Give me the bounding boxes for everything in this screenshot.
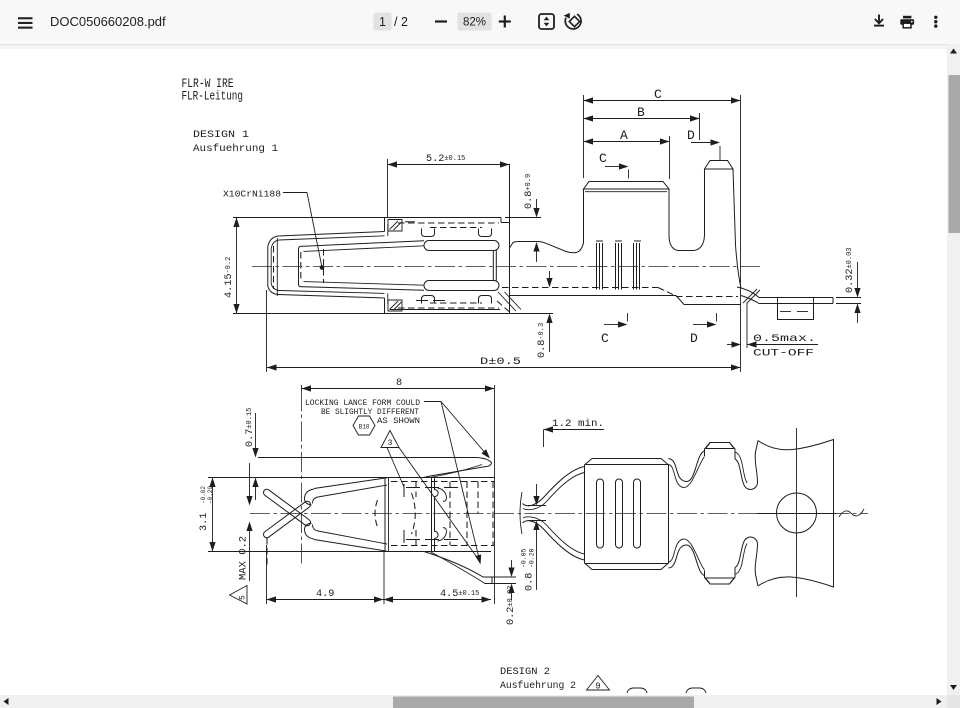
dimension 0.8+0.9 vertical — [536, 199, 538, 213]
svg-text:DESIGN 1: DESIGN 1 — [193, 129, 249, 141]
fit-to-page icon — [539, 14, 554, 29]
side view: S-curve to insulation wing lower — [669, 545, 705, 576]
bottom view: box top line — [208, 477, 494, 479]
minus icon — [435, 20, 447, 22]
top view: tongue jaws — [304, 241, 425, 246]
top view: box bottom fold double line — [278, 295, 385, 299]
dimension 0.8 funnel vertical — [528, 505, 546, 507]
top view: serration lines group 2 — [615, 243, 617, 290]
side view: insulation wing upper — [705, 443, 736, 460]
top view: left rounded cap — [268, 236, 278, 295]
svg-text:/ 2: / 2 — [394, 15, 408, 29]
vertical scrollbar — [947, 44, 960, 695]
top view: insulation wing pillar — [705, 161, 734, 170]
dimension C horizontal — [584, 100, 741, 102]
kebab menu icon — [934, 16, 937, 28]
svg-text:5: 5 — [239, 595, 248, 600]
svg-text:FLR-Leitung: FLR-Leitung — [182, 89, 244, 104]
top view: box top fold double line — [278, 232, 385, 237]
top view: hidden bottom line — [502, 287, 658, 289]
svg-text:X10CrNi188: X10CrNi188 — [223, 189, 281, 200]
top view: spring exit diagonals — [498, 292, 516, 311]
svg-text:D: D — [690, 331, 698, 346]
top view: outer top line — [233, 217, 501, 219]
hamburger menu icon — [18, 17, 33, 29]
dimension B horizontal — [584, 118, 700, 120]
print icon — [900, 16, 914, 28]
dimension 3.1 vertical — [212, 478, 214, 552]
svg-text:9: 9 — [595, 682, 600, 692]
symbol hexagon B18 — [353, 416, 375, 435]
side view: carrier hole circle — [777, 493, 817, 533]
svg-text:D±0.5: D±0.5 — [480, 357, 521, 368]
bottom view: upper arm — [304, 489, 314, 505]
svg-text:-0.20: -0.20 — [207, 486, 214, 504]
svg-text:-0.20: -0.20 — [529, 548, 536, 568]
top view: spring clip U top — [422, 229, 435, 237]
top view: hidden line bottom — [398, 307, 499, 309]
bottom view: rear wall — [384, 478, 386, 552]
side view: wire barrel outline — [585, 459, 669, 570]
svg-text:82%: 82% — [463, 17, 486, 29]
top view: centre line — [252, 266, 762, 268]
svg-text:BE SLIGHTLY DIFFERENT: BE SLIGHTLY DIFFERENT — [321, 408, 419, 417]
symbol triangle 9 — [587, 676, 610, 691]
side view: S-curve to insulation wing upper — [669, 451, 705, 482]
svg-text:8: 8 — [396, 378, 402, 389]
bottom view: hidden contact circle arc — [412, 493, 416, 534]
svg-text:C: C — [599, 151, 607, 166]
side view: serration slot 3 — [634, 479, 641, 548]
dimension 0.32±0.03 vertical — [857, 262, 859, 292]
side view: wire funnel upper — [523, 467, 585, 506]
bottom view: contact tip blade 2 — [262, 500, 312, 539]
dimension 4.9 — [267, 599, 384, 601]
dimension 4.5±0.15 — [384, 599, 492, 601]
svg-text:Ausfuehrung 2: Ausfuehrung 2 — [500, 680, 576, 692]
svg-text:DESIGN 2: DESIGN 2 — [500, 666, 550, 678]
side view: notch after wing lower — [735, 537, 758, 586]
side view: wire funnel lower — [523, 521, 585, 560]
top view: carrier strip — [759, 297, 833, 299]
top view: contact tongue front face — [299, 246, 304, 287]
top view: seam hatch bottom — [388, 300, 402, 311]
bottom view: datum dash-dot vertical — [301, 385, 303, 391]
svg-text:AS SHOWN: AS SHOWN — [377, 417, 420, 426]
top view: serration lines group 1 — [596, 243, 598, 290]
top view: bottom edge crimp floor — [510, 295, 677, 297]
bottom view: leader lines — [424, 401, 441, 403]
dimension gap 0.2 arrows — [249, 463, 251, 501]
top view: bottom outer line — [233, 313, 553, 315]
svg-text:MAX 0.2: MAX 0.2 — [238, 536, 250, 580]
dimension 5.2±0.15 — [388, 164, 510, 166]
side view: serration slot 2 — [616, 479, 623, 548]
bottom view: lance top line — [258, 457, 477, 459]
svg-text:0.5max.: 0.5max. — [753, 333, 816, 345]
zoom box — [458, 13, 492, 31]
dimension 0.7±0.15 vertical — [255, 413, 257, 453]
bottom view: lower arm — [304, 523, 314, 539]
plus icon — [499, 16, 511, 28]
svg-text:1: 1 — [379, 15, 386, 29]
top view: carrier tab — [778, 304, 814, 320]
svg-text:Ausfuehrung 1: Ausfuehrung 1 — [193, 143, 278, 155]
top view: spring clip U bottom — [422, 296, 435, 304]
svg-text:C: C — [654, 87, 662, 102]
bottom view: centre line — [250, 513, 868, 515]
side view: flare centre mark vertical — [796, 428, 798, 597]
dimension D±0.5 — [267, 367, 741, 369]
dimension 0.2±0.02 vertical — [492, 576, 516, 578]
symbol triangle 3 — [381, 431, 399, 448]
rotate icon — [565, 14, 581, 29]
svg-text:B: B — [637, 105, 645, 120]
top view: hidden line top — [398, 222, 499, 224]
svg-text:0.8: 0.8 — [525, 573, 536, 591]
side view: insulation wing lower — [705, 568, 736, 585]
symbol triangle 5 — [230, 586, 248, 605]
svg-text:D: D — [687, 128, 695, 143]
horizontal scrollbar — [0, 695, 947, 708]
centre line break squiggle — [839, 509, 864, 517]
svg-text:A: A — [620, 128, 628, 143]
next page partial shapes — [627, 688, 647, 693]
dimension 0.8-0.3 vertical — [549, 271, 551, 283]
bottom view: contact tip blade 1 — [262, 488, 312, 527]
svg-text:DOC050660208.pdf: DOC050660208.pdf — [50, 14, 166, 29]
page number box — [374, 13, 392, 31]
svg-text:CUT-OFF: CUT-OFF — [753, 348, 814, 360]
side view: notch after wing upper — [735, 441, 758, 490]
toolbar background — [0, 0, 960, 44]
top view: serration lines group 3 — [633, 243, 635, 290]
top view: seam hatch top — [388, 220, 402, 232]
svg-text:4.9: 4.9 — [316, 589, 334, 600]
svg-text:3: 3 — [388, 439, 393, 448]
top view: lower spring lobe — [424, 281, 499, 291]
bottom view: box bottom line — [208, 551, 491, 553]
download icon — [874, 15, 884, 26]
top view: carrier strip break lines — [836, 297, 861, 299]
side view: serration slot 1 — [597, 479, 604, 548]
bottom view: crimp interior hidden lines — [391, 481, 494, 483]
top view: upper spring lobe — [424, 241, 499, 251]
svg-text:LOCKING LANCE FORM COULD: LOCKING LANCE FORM COULD — [305, 399, 420, 408]
top view: wire crimp wing — [584, 182, 670, 190]
dimension A horizontal — [584, 141, 670, 143]
top view: right box edge — [387, 159, 389, 218]
svg-text:B18: B18 — [359, 424, 370, 431]
dimension 4.15-0.2 vertical — [236, 218, 238, 314]
top view: lobe connector — [492, 251, 494, 281]
top view: neck hump — [510, 190, 584, 253]
side view: end flare bell — [758, 440, 834, 588]
svg-text:C: C — [601, 331, 609, 346]
svg-text:-0.02: -0.02 — [200, 486, 207, 504]
top view: carrier foot curves — [737, 287, 759, 298]
svg-text:-0.05: -0.05 — [521, 548, 528, 568]
svg-text:1.2 min.: 1.2 min. — [552, 418, 604, 430]
bottom view: partition wall with bumps — [431, 478, 433, 552]
svg-text:3.1: 3.1 — [199, 513, 210, 531]
bottom view: lower lance wing — [424, 552, 492, 578]
dimension 8 horizontal — [302, 388, 495, 390]
